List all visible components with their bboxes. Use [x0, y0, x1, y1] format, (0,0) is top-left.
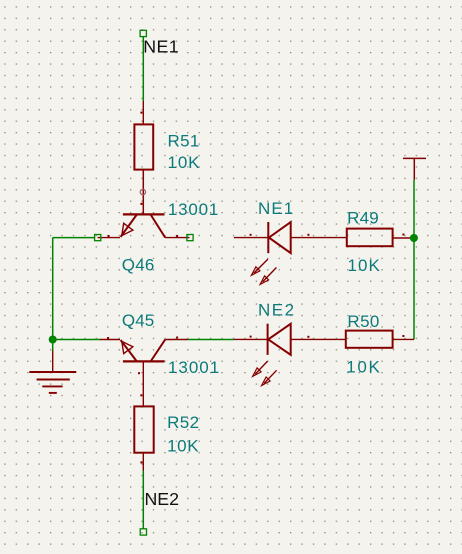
R50 pin 2 (right) — [393, 338, 414, 340]
Q46 collector pin — [165, 237, 189, 239]
svg-text:R50: R50 — [347, 312, 379, 331]
R52 body — [134, 406, 153, 452]
Q45 emitter pin number — [107, 337, 109, 339]
junction right rail — [410, 234, 418, 242]
R49 pin 2 number — [402, 234, 404, 236]
junction left rail — [49, 336, 57, 344]
svg-text:10K: 10K — [346, 357, 380, 376]
R52 pin 2 number — [140, 461, 142, 463]
svg-text:13001: 13001 — [168, 358, 219, 377]
NE1 emission arrow 1 — [251, 259, 268, 275]
Q45 collector diagonal — [151, 340, 165, 362]
Q45 base pin (down to R52) — [142, 361, 144, 406]
R51 pin 1 number — [140, 112, 142, 114]
svg-text:13001: 13001 — [168, 200, 219, 219]
svg-text:R51: R51 — [168, 131, 200, 150]
R51 pin 2 (bottom, joins Q46 base pin) — [142, 170, 144, 215]
R51 pin 1 (top) — [142, 101, 144, 124]
svg-text:Q45: Q45 — [122, 311, 154, 330]
wire Q45 collector to NE2 lamp — [188, 339, 234, 341]
svg-text:NE1: NE1 — [143, 36, 179, 56]
svg-text:10K: 10K — [348, 256, 381, 275]
Q46 collector pin number — [176, 235, 178, 237]
transistor Q46 (13001) — [98, 200, 219, 274]
resistor R49 — [347, 209, 414, 276]
Q46 emitter diagonal — [121, 215, 137, 237]
NE1 anode pin (right) — [291, 237, 347, 239]
NE1 anode pin number — [307, 234, 309, 236]
Q46 emitter pin — [98, 237, 121, 239]
NE2 emission arrow 2 — [262, 370, 277, 385]
NE2 triangle — [268, 324, 291, 355]
NE2 anode pin number — [307, 336, 309, 338]
Q45 emitter diagonal — [121, 340, 137, 361]
NE2 cathode pin (left) — [234, 338, 268, 340]
Q45 emitter arrow — [122, 341, 133, 353]
NE2 anode pin (right) — [291, 338, 346, 340]
NE2 cathode pin number — [250, 336, 252, 338]
R49 pin 2 (right) — [393, 237, 414, 239]
svg-text:R52: R52 — [167, 413, 199, 432]
transistor Q45 (13001) — [100, 311, 219, 407]
node square at Q46 emitter — [95, 235, 101, 241]
node square at Q46 collector — [187, 235, 193, 241]
svg-text:NE2: NE2 — [145, 489, 180, 509]
wire right rail vertical — [413, 180, 415, 340]
wire left rail vertical — [52, 238, 54, 340]
power rail symbol (top right) — [403, 158, 426, 179]
R51 body — [134, 124, 153, 169]
neon lamp NE1 (LED symbol) — [234, 199, 347, 285]
Q45 base pin number — [138, 372, 140, 374]
node pin-end circle R51/Q46 base — [140, 189, 145, 194]
ground — [29, 351, 76, 393]
NE1 cathode pin (left) — [234, 237, 268, 239]
Q45 emitter pin — [100, 339, 120, 341]
wire NE1 label to R51 pin 1 — [142, 37, 144, 101]
Q46 collector diagonal — [151, 215, 165, 238]
wire R52 to NE2 label — [142, 471, 144, 529]
svg-text:10K: 10K — [168, 153, 201, 172]
resistor R51 — [134, 101, 200, 214]
node NE2 bottom wire-end square — [140, 529, 146, 535]
R49 body — [347, 229, 393, 247]
R50 pin 2 number — [402, 335, 404, 337]
R52 pin 2 (bottom) — [142, 453, 144, 471]
Q46 emitter pin number — [108, 235, 110, 237]
svg-text:NE1: NE1 — [258, 199, 293, 218]
Q46 base pin number — [140, 203, 142, 205]
node NE1 top wire-end square — [140, 30, 146, 36]
NE2 cathode bar — [267, 324, 269, 355]
svg-text:10K: 10K — [167, 436, 199, 455]
neon lamp NE2 (LED symbol) — [234, 300, 346, 385]
svg-text:Q46: Q46 — [122, 255, 155, 274]
Q46 base bar — [123, 213, 165, 215]
Q46 emitter arrow — [122, 223, 133, 235]
svg-text:R49: R49 — [347, 209, 379, 228]
resistor R52 — [134, 394, 199, 470]
wire Q46 emitter to left rail — [53, 237, 95, 239]
resistor R50 — [346, 312, 414, 376]
wire junction to ground — [52, 340, 54, 351]
NE1 triangle — [269, 222, 291, 253]
Q45 collector pin — [165, 339, 188, 341]
R50 body — [346, 331, 393, 348]
NE1 cathode pin number — [250, 234, 252, 236]
svg-text:NE2: NE2 — [258, 300, 294, 319]
Q45 collector pin number — [176, 337, 178, 339]
NE1 emission arrow 2 — [260, 268, 276, 285]
NE1 cathode bar — [267, 222, 269, 253]
Q45 base bar — [123, 360, 165, 362]
R52 pin 1 number — [140, 394, 142, 396]
wire junction to Q45 emitter — [53, 339, 100, 341]
NE2 emission arrow 1 — [253, 361, 268, 376]
